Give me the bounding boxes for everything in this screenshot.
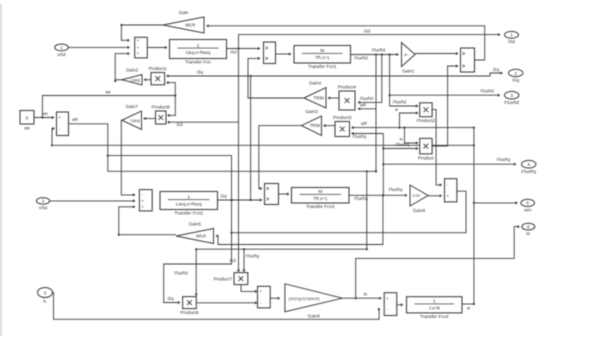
svg-text:0: 0 <box>26 116 29 122</box>
svg-text:Gain6: Gain6 <box>308 314 321 319</box>
svg-text:Product1: Product1 <box>149 66 168 71</box>
svg-text:iSd: iSd <box>508 39 515 44</box>
svg-text:iSd: iSd <box>229 258 236 263</box>
svg-text:1: 1 <box>197 43 200 48</box>
svg-text:Transfer Fcn4: Transfer Fcn4 <box>420 314 449 319</box>
svg-text:ws: ws <box>24 126 30 131</box>
svg-text:FluxRd: FluxRd <box>372 48 386 53</box>
svg-text:-K-: -K- <box>403 53 409 57</box>
svg-text:Product4: Product4 <box>338 85 357 90</box>
svg-text:Gain1: Gain1 <box>402 69 415 74</box>
svg-text:Transfer Fcn1: Transfer Fcn1 <box>308 64 337 69</box>
svg-text:1/TR: 1/TR <box>412 194 420 198</box>
svg-text:FluxRq: FluxRq <box>354 196 368 201</box>
svg-text:iSd: iSd <box>176 122 183 127</box>
svg-text:Transfer Fcn2: Transfer Fcn2 <box>175 211 204 216</box>
svg-text:Lleq.s+Rseq: Lleq.s+Rseq <box>186 50 211 55</box>
svg-text:FluxRd: FluxRd <box>354 56 368 61</box>
svg-text:wm: wm <box>524 208 531 213</box>
svg-text:iSq: iSq <box>493 67 500 72</box>
svg-text:FluxRq: FluxRq <box>497 157 511 162</box>
svg-text:FluxRq: FluxRq <box>246 254 260 259</box>
svg-text:+: + <box>446 193 449 198</box>
svg-text:J.s+B: J.s+B <box>429 306 440 311</box>
svg-text:Lseq.s+Rseq: Lseq.s+Rseq <box>176 201 202 206</box>
svg-text:FluxRq: FluxRq <box>396 142 410 147</box>
svg-text:Gain7: Gain7 <box>126 104 139 109</box>
svg-text:+: + <box>141 204 144 209</box>
svg-text:Product6: Product6 <box>180 310 199 315</box>
svg-text:Product3: Product3 <box>333 115 352 120</box>
svg-text:2: 2 <box>514 71 517 76</box>
svg-text:te: te <box>526 231 530 236</box>
svg-text:wR: wR <box>360 102 366 107</box>
svg-text:Product7: Product7 <box>214 276 233 281</box>
svg-text:4: 4 <box>527 162 530 167</box>
svg-text:TR/M: TR/M <box>310 123 321 128</box>
svg-text:FluxRd: FluxRd <box>174 271 188 276</box>
svg-text:iL: iL <box>43 299 47 304</box>
svg-text:FluxRd: FluxRd <box>504 100 519 105</box>
svg-text:Gain8: Gain8 <box>413 208 426 213</box>
svg-text:Lseq: Lseq <box>131 77 141 82</box>
svg-text:iSd: iSd <box>364 29 371 34</box>
svg-text:Transfer Fcn: Transfer Fcn <box>185 60 211 65</box>
svg-text:TR.s+1: TR.s+1 <box>313 196 328 201</box>
svg-text:6: 6 <box>527 224 530 229</box>
svg-text:Gain5: Gain5 <box>189 222 202 227</box>
svg-text:3: 3 <box>510 93 513 98</box>
svg-text:FluxRq: FluxRq <box>353 134 367 139</box>
svg-text:Lseq: Lseq <box>130 118 140 123</box>
svg-text:+: + <box>137 45 140 50</box>
svg-text:Product5: Product5 <box>152 105 171 110</box>
svg-text:FluxRq: FluxRq <box>521 169 536 174</box>
svg-text:iSd: iSd <box>230 50 237 55</box>
svg-text:iSq: iSq <box>512 78 519 83</box>
svg-text:1: 1 <box>60 45 63 50</box>
svg-text:FluxRd: FluxRd <box>393 100 407 105</box>
svg-text:+: + <box>386 296 389 301</box>
svg-text:+: + <box>137 38 140 43</box>
svg-text:1: 1 <box>187 194 190 199</box>
svg-text:uSq: uSq <box>39 205 48 210</box>
svg-text:M: M <box>320 48 324 53</box>
svg-text:+: + <box>58 115 61 120</box>
svg-text:iSq: iSq <box>167 296 174 301</box>
svg-text:1: 1 <box>510 33 513 38</box>
svg-text:ws: ws <box>105 90 110 95</box>
svg-text:M/LR: M/LR <box>185 23 195 28</box>
svg-text:Product: Product <box>418 155 435 160</box>
svg-text:M/LR: M/LR <box>196 234 206 239</box>
svg-text:+: + <box>137 51 140 56</box>
svg-text:(3/2)*(p/2)*(M/LR): (3/2)*(p/2)*(M/LR) <box>289 296 321 301</box>
svg-text:iSq: iSq <box>197 70 204 75</box>
svg-text:Product2: Product2 <box>417 118 436 123</box>
svg-text:Gain2: Gain2 <box>126 68 139 73</box>
svg-text:+: + <box>141 199 144 204</box>
svg-text:3: 3 <box>44 290 47 295</box>
svg-text:+: + <box>259 289 262 294</box>
svg-text:M: M <box>318 189 322 194</box>
svg-text:Gain: Gain <box>179 10 189 15</box>
svg-text:5: 5 <box>526 201 529 206</box>
svg-text:wR: wR <box>72 117 78 122</box>
svg-text:ws: ws <box>42 111 47 116</box>
svg-text:iSq: iSq <box>220 194 227 199</box>
svg-text:FluxRq: FluxRq <box>389 187 403 192</box>
svg-text:1: 1 <box>433 299 436 304</box>
svg-text:FluxRd: FluxRd <box>480 89 494 94</box>
svg-text:Transfer Fcn3: Transfer Fcn3 <box>306 204 335 209</box>
svg-text:Gain4: Gain4 <box>309 81 322 86</box>
svg-text:TR/M: TR/M <box>314 96 325 101</box>
svg-text:2: 2 <box>42 199 45 204</box>
svg-text:wR: wR <box>361 121 367 126</box>
svg-text:uSd: uSd <box>57 52 66 57</box>
svg-text:TR.s+1: TR.s+1 <box>315 55 330 60</box>
svg-text:Gain3: Gain3 <box>305 109 318 114</box>
svg-text:FluxRd: FluxRd <box>360 96 374 101</box>
